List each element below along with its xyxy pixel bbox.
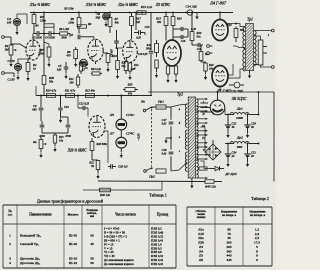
input terminal 1 [2,36,11,39]
ground [128,75,131,81]
label R13 [140,5,153,10]
ground [246,156,249,167]
resistor R8b [79,61,82,74]
label C16b [138,53,148,56]
label C19 [197,48,202,51]
wire plate lower to T1 [228,69,245,78]
transformer T1 core [246,24,254,71]
capacitor C5b [64,62,69,73]
junction [165,12,167,14]
label C15 value [136,37,141,40]
resistor R13 [137,11,146,14]
junction [219,12,221,14]
label R32 [64,89,76,93]
wire cathode [18,58,30,64]
capacitor C16 [173,27,188,31]
wire [77,95,79,108]
transformer T2 winding taps [196,98,208,179]
grid terminal 1 [207,45,213,48]
resistor R31 [47,94,56,98]
switch blade lower [146,167,153,170]
capacitor C4 [45,31,60,36]
wire filament a [200,102,208,104]
capacitor C21 [229,82,244,88]
ground [116,74,119,80]
wire stab top [120,95,122,119]
wire bus 181 [98,180,205,183]
label tube L4b [216,89,231,93]
fuse Pr2 [156,169,166,173]
capacitor C3 [34,31,45,36]
wire [219,87,221,91]
label tube L2a [117,3,138,7]
label Dr1 value [236,117,243,120]
ground [120,148,123,158]
ground [174,78,177,84]
wire feedback [83,182,162,191]
capacitor C18m [169,152,174,154]
label L5 [109,113,135,117]
wire bus left end [35,86,37,96]
tube U2 L1b triode [88,39,103,61]
ground [164,137,172,143]
label R23 [204,53,210,56]
wire [233,23,237,46]
wire to B+ [258,91,260,144]
label R14 [121,62,127,69]
table 1 wire column [151,227,164,268]
tube V1 SG4S stabilizer [116,119,127,130]
wire [81,36,94,38]
ground [64,74,67,80]
label R5 120k [63,8,74,11]
label R5 [38,48,44,56]
label R24 [208,64,214,71]
labels windings [179,100,206,153]
label diode DG-Ts24 [224,172,237,176]
label C4b value [61,36,67,39]
wire plate upper to T1 [226,24,245,27]
wire right edge [273,92,275,182]
resistor R8 [74,47,78,61]
tube U4 L3 pentode [163,40,181,66]
capacitor C19 [192,43,203,47]
label C20 [118,165,128,170]
tube U3 L2a triode [123,41,138,63]
label R12b [68,78,74,85]
resistor R32 [66,94,75,98]
resistor R36 [96,160,100,173]
label Table 2 caption [251,196,269,201]
wire vertical 151 lower [150,54,152,96]
output terminal 1 [271,29,274,32]
wire B+ rail [30,12,233,14]
label C5 [70,33,74,37]
table 1 frame [3,205,176,268]
label [8,78,16,82]
wire [224,110,225,115]
wire coil top [254,36,261,40]
label R10 [111,54,117,58]
label tube L2b [66,149,87,153]
ground [15,26,18,35]
wire center tap [236,46,245,48]
tube U7 L2b triode [89,116,105,138]
junction [172,12,174,14]
label Tr2 [177,93,183,97]
label R36 [88,161,94,169]
label C17 [181,40,186,43]
resistor R2 [26,59,30,75]
table 1 rows [9,234,94,265]
ground [53,147,56,153]
rectifier bridge D1-D4 [205,144,221,160]
capacitor C20 [108,164,116,169]
ground core [190,178,193,189]
capacitor C25 [244,143,250,156]
label R19o [226,23,245,32]
wire primary bottom [171,162,187,171]
ground [155,73,158,79]
label tube L1a [29,3,51,7]
ground [106,67,109,73]
capacitor C9 [39,96,44,122]
resistor R48 [42,13,46,96]
label L7 [109,132,135,136]
resistor R22b [174,66,177,77]
choke L2 Dr2 [225,142,259,144]
wire grid [11,44,26,48]
label C6 [95,12,100,20]
choke L1 Dr1 [225,113,259,115]
label R12 [133,64,139,71]
label C9 [32,104,37,112]
transformer T2 winding V [196,147,198,161]
resistor R42 [199,167,207,170]
table 2 header [196,209,267,219]
label C24 [232,151,237,159]
label R31 [45,89,57,93]
ground [204,75,207,81]
transformer T2 winding II [196,111,198,125]
junction [109,12,111,14]
label R17 [135,17,141,25]
tap stubs [263,47,267,54]
wire [69,34,71,37]
label C4 [45,36,55,39]
label choke Dr2 [236,136,243,140]
resistor R12b [76,74,79,88]
label R14b [90,68,102,71]
wire anode [217,91,219,100]
junction [95,12,97,14]
resistor R40 [205,180,214,184]
resistor R14b [91,72,102,75]
switch linkage dashed [151,109,153,167]
label C10 [64,106,69,109]
label R26 [131,68,136,71]
ground [16,71,19,80]
ground [96,174,99,180]
wire filament b [200,112,213,115]
transformer T2 primary winding [185,104,187,171]
resistor R4 [43,24,55,35]
capacitor C11 [66,117,71,133]
resistor R21b [166,66,169,77]
label tube L4 [209,1,227,6]
label mains [137,133,141,140]
transformer T2 winding VI [196,159,198,178]
tube V3 rectifier 5C3S [210,100,225,115]
grid terminal 2 [207,52,213,55]
table 2 rows [198,228,260,262]
ground [226,127,229,138]
junction [185,12,187,14]
resistor R6b [60,32,70,35]
resistor R3 [32,13,36,34]
resistor R19o [234,27,238,43]
potentiometer R1 [9,37,16,61]
capacitor C12 [78,106,88,110]
resistor R26 [124,60,128,74]
resistor R5 [44,34,51,62]
label C11 [65,135,71,138]
capacitor C16b [149,51,154,53]
resistor R6 [77,13,81,34]
resistor R34 [53,133,56,146]
potentiometer Rv [39,136,46,152]
capacitor C8 [40,121,45,133]
label R7 [114,17,120,25]
resistor R41 [100,188,111,192]
label R8b [84,64,89,71]
transformer T2 winding IV [196,135,198,149]
capacitor C17 [173,29,188,39]
label C21 [231,89,243,93]
label Rv [32,140,37,144]
fuse Pr1 [152,105,171,109]
label C15 [145,25,150,29]
wire [219,13,221,20]
resistor R35 [90,138,94,160]
label R18 [146,43,153,51]
label R9 [87,22,92,26]
diode D5 DG-Ts24 [210,166,224,170]
capacitor C22 [225,114,231,127]
wire grid L2b [87,108,89,117]
capacitor C7 electrolytic [80,59,88,67]
label R6b [58,28,69,31]
label R2 [32,63,37,71]
wire to terminal 2 [261,65,272,67]
label C22 [232,122,237,130]
resistor R15 [164,13,168,41]
label C7 [82,69,86,72]
label R1 [4,44,9,52]
table 1 winding data column [104,227,134,267]
speaker coil [258,40,263,65]
ground [26,76,29,82]
label R33 [84,89,95,93]
wires mains vertical [170,107,172,171]
label R25 [127,83,133,96]
wire [103,52,108,54]
ground [104,22,107,28]
output terminal 2 [271,66,274,69]
label R20 [196,31,202,39]
wire plate L2b [105,131,108,163]
label tube L3 [155,3,171,7]
label R41 [99,193,111,197]
label R15 [155,17,162,25]
label switch Vk [141,100,145,104]
label C14 [185,5,197,9]
transformer T2 core [188,97,195,178]
label C25 [251,151,256,159]
junction [33,12,35,14]
table 1 header [8,208,169,218]
junction [191,12,193,14]
input terminal 2 [2,72,14,77]
wires [168,65,176,68]
capacitor C15 [134,30,145,35]
label fuse Pr2 [148,175,155,179]
tube U1 L1a triode [26,40,40,60]
capacitor C14 trimmer [186,10,197,15]
label R35 [96,143,108,146]
resistor R7 [108,13,112,34]
ground [47,62,50,68]
transformer T2 winding I [196,99,198,113]
capacitor C1 [14,63,21,70]
wire lower plate [228,64,233,75]
wire screen bus [135,13,137,31]
label C18m [162,148,167,156]
wire secondary bottom [254,64,258,66]
label Dr2 value [237,146,243,149]
junction [135,12,137,14]
resistor R24 [201,62,207,74]
capacitor C2 [13,18,20,25]
capacitor C24 [225,143,231,156]
label C2 [7,17,12,25]
wire [200,161,210,169]
ground [39,153,42,159]
label Table 1 caption [149,193,167,198]
junction [43,12,45,14]
label Tr1 [247,18,253,22]
wire to bridge [200,127,205,152]
resistor R25 [123,88,138,92]
resistor R9 [78,25,87,28]
junctions tone bus [40,95,122,97]
resistor R17 [130,13,134,41]
transformer T1 secondary winding [254,31,256,66]
table 2 frame [187,207,272,266]
wire tone bus [36,95,152,97]
capacitor C5 [78,35,80,40]
tube U6 G-807 lower [212,66,228,87]
label tap [268,34,270,37]
capacitor C6 electrolytic [103,13,110,20]
label R8 [66,50,71,58]
label C23 [251,122,256,130]
ground [9,62,12,68]
mains terminal lower [144,170,147,173]
label C12 [79,103,90,106]
wire between stabs [120,130,122,137]
ground [195,13,198,20]
label R34 [58,136,64,143]
capacitor C10 [58,96,63,118]
transformer T2 winding III [196,123,198,137]
ground [74,62,77,68]
capacitor C17m [169,122,174,124]
ground [226,156,229,167]
label C1 [8,59,16,63]
resistor R18 [155,40,159,57]
resistor R23 [199,45,203,62]
label C17m [162,118,167,126]
wire to rectifier [200,107,210,109]
mains terminal upper [143,109,146,112]
resistor R20 [190,13,194,46]
wire secondary top [254,30,271,32]
table 1 title [37,199,104,204]
wire [92,159,98,161]
capacitor C6b [114,30,119,48]
capacitor C23 [244,114,250,127]
label tube L6 [231,97,247,101]
label C3 [32,36,42,39]
resistor R14 [116,48,120,73]
wire vertical 151 upper [150,13,152,51]
wire bridge top [212,140,214,144]
ground [246,127,249,138]
label C16 [191,28,196,31]
ground [248,71,251,79]
junction [78,12,80,14]
wire grid2 [93,37,95,40]
wire divider rail [148,91,274,93]
junction [129,12,131,14]
label C6b [111,48,114,56]
label R3 [39,15,47,23]
wire [42,132,68,134]
label R4 [34,24,39,28]
resistor R12 cathode [128,62,131,74]
wire grid3 [116,47,123,49]
label C8 [39,135,45,138]
wire bottom right [214,181,222,183]
label C5b [57,64,62,72]
junction [141,12,143,14]
label tube L1b [85,3,107,7]
ground [166,78,169,84]
tube V2 SG4S stabilizer [116,137,127,148]
resistor R16 [171,13,175,41]
label choke Dr1 [236,107,243,111]
label fuse Pr1 [157,100,164,104]
label R16 [176,17,182,21]
resistor R10 cathode [106,53,110,66]
label R6 [68,17,74,25]
ground [59,118,62,124]
switch Vk [146,107,153,111]
wire C2 top [17,14,27,24]
wire plate [33,34,34,41]
transformer T1 primary winding [243,27,245,71]
